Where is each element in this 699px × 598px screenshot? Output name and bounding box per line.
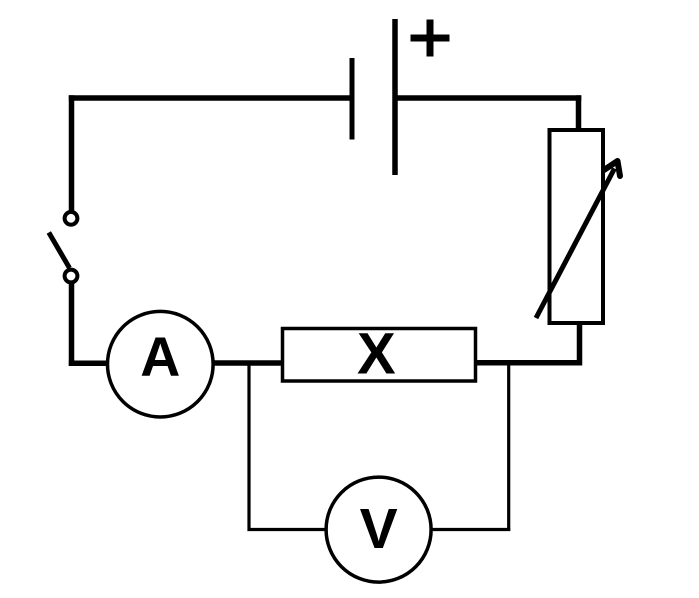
rheostat R1 arrow head [604, 161, 620, 176]
wire: voltmeter branch bottom-right horizontal [432, 528, 510, 531]
switch S1 lower contact [65, 270, 78, 283]
wire: ammeter to resistor X [213, 360, 284, 366]
wire: bottom-right horizontal (rheostat to resistor X) [476, 360, 581, 366]
wire: left vertical upper (corner to switch) [69, 95, 75, 210]
wire: left vertical lower (switch to bottom corner) [69, 284, 75, 367]
wire: voltmeter branch left vertical (node under X left) [247, 363, 250, 531]
wire: rheostat bottom vertical [577, 322, 583, 366]
wire: right vertical into rheostat top [576, 95, 582, 130]
svg-text:A: A [140, 326, 180, 388]
battery polarity label + [411, 20, 450, 57]
rheostat R1 arrow shaft [536, 169, 615, 319]
switch S1 blade (open) [49, 233, 70, 269]
voltmeter V1 circle [326, 477, 431, 582]
wire: voltmeter branch right vertical (node under X right) [507, 363, 510, 531]
ammeter A1 circle [108, 311, 214, 417]
rheostat R1 body [550, 130, 604, 323]
svg-text:V: V [360, 497, 398, 561]
battery B1 positive plate (long) [392, 19, 398, 175]
switch S1 upper contact [65, 212, 78, 225]
wire: top-left horizontal (switch to battery negative) [69, 95, 352, 101]
battery B1 negative plate (short) [350, 58, 355, 140]
wire: top-right horizontal (battery positive to rheostat) [395, 95, 581, 101]
svg-text:X: X [357, 322, 396, 387]
resistor X body [283, 329, 476, 382]
wire: voltmeter branch bottom-left horizontal [248, 528, 326, 531]
wire: left bottom horizontal into ammeter [69, 361, 107, 367]
